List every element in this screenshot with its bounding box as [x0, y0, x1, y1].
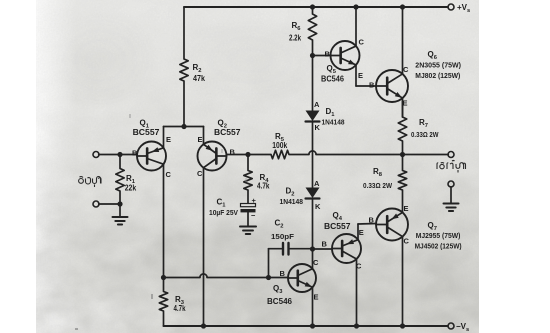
svg-text:E: E: [403, 99, 408, 108]
svg-text:47k: 47k: [193, 74, 205, 83]
svg-text:C: C: [403, 65, 409, 74]
svg-text:A: A: [314, 179, 320, 188]
svg-text:22k: 22k: [125, 184, 137, 193]
svg-text:150pF: 150pF: [271, 232, 294, 241]
svg-text:2.2k: 2.2k: [289, 34, 301, 43]
svg-text:E: E: [198, 135, 203, 144]
svg-text:A: A: [314, 100, 320, 109]
svg-text:0.33Ω 2W: 0.33Ω 2W: [363, 181, 393, 190]
svg-text:B: B: [132, 149, 138, 158]
svg-text:C: C: [166, 170, 172, 179]
svg-text:1N4148: 1N4148: [280, 197, 304, 206]
svg-text:4.7k: 4.7k: [257, 182, 270, 191]
svg-text:K: K: [315, 123, 321, 132]
svg-text:E: E: [359, 228, 364, 237]
svg-text:MJ4502 (125W): MJ4502 (125W): [415, 242, 462, 251]
svg-text:B: B: [369, 216, 375, 225]
svg-text:1N4148: 1N4148: [322, 118, 345, 127]
svg-text:E: E: [166, 135, 171, 144]
svg-text:E: E: [314, 293, 319, 302]
svg-text:0.33Ω 2W: 0.33Ω 2W: [411, 130, 439, 139]
svg-text:+: +: [252, 196, 257, 205]
svg-text:MJ802 (125W): MJ802 (125W): [415, 71, 460, 80]
svg-text:2N3055 (75W): 2N3055 (75W): [415, 61, 461, 70]
svg-text:B: B: [280, 269, 286, 278]
svg-text:MJ2955 (75W): MJ2955 (75W): [416, 231, 461, 240]
svg-text:E: E: [404, 204, 409, 213]
svg-text:BC546: BC546: [321, 75, 345, 84]
svg-text:100k: 100k: [272, 141, 287, 150]
svg-text:10µF 25V: 10µF 25V: [209, 208, 238, 217]
svg-text:C: C: [356, 262, 362, 271]
svg-text:4.7k: 4.7k: [174, 304, 186, 313]
svg-text:C: C: [359, 38, 365, 47]
svg-text:E: E: [358, 71, 363, 80]
svg-text:C: C: [197, 169, 203, 178]
svg-text:B: B: [230, 148, 236, 157]
svg-text:B: B: [369, 81, 375, 90]
svg-text:BC546: BC546: [267, 297, 293, 306]
svg-text:C: C: [404, 237, 410, 246]
svg-text:BC557: BC557: [214, 128, 241, 137]
svg-text:B: B: [322, 240, 328, 249]
svg-text:BC557: BC557: [324, 222, 351, 231]
svg-text:BC557: BC557: [133, 128, 160, 137]
svg-text:−: −: [251, 211, 256, 220]
svg-text:B: B: [325, 50, 331, 59]
svg-text:K: K: [315, 202, 321, 211]
svg-text:C: C: [313, 258, 319, 267]
